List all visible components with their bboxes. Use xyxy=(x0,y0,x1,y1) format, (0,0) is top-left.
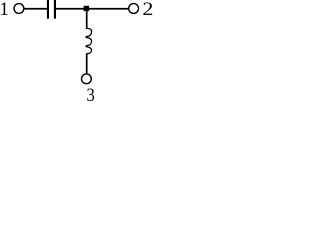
svg-text:2: 2 xyxy=(142,0,153,20)
svg-text:3: 3 xyxy=(87,85,95,102)
svg-text:1: 1 xyxy=(0,0,9,20)
